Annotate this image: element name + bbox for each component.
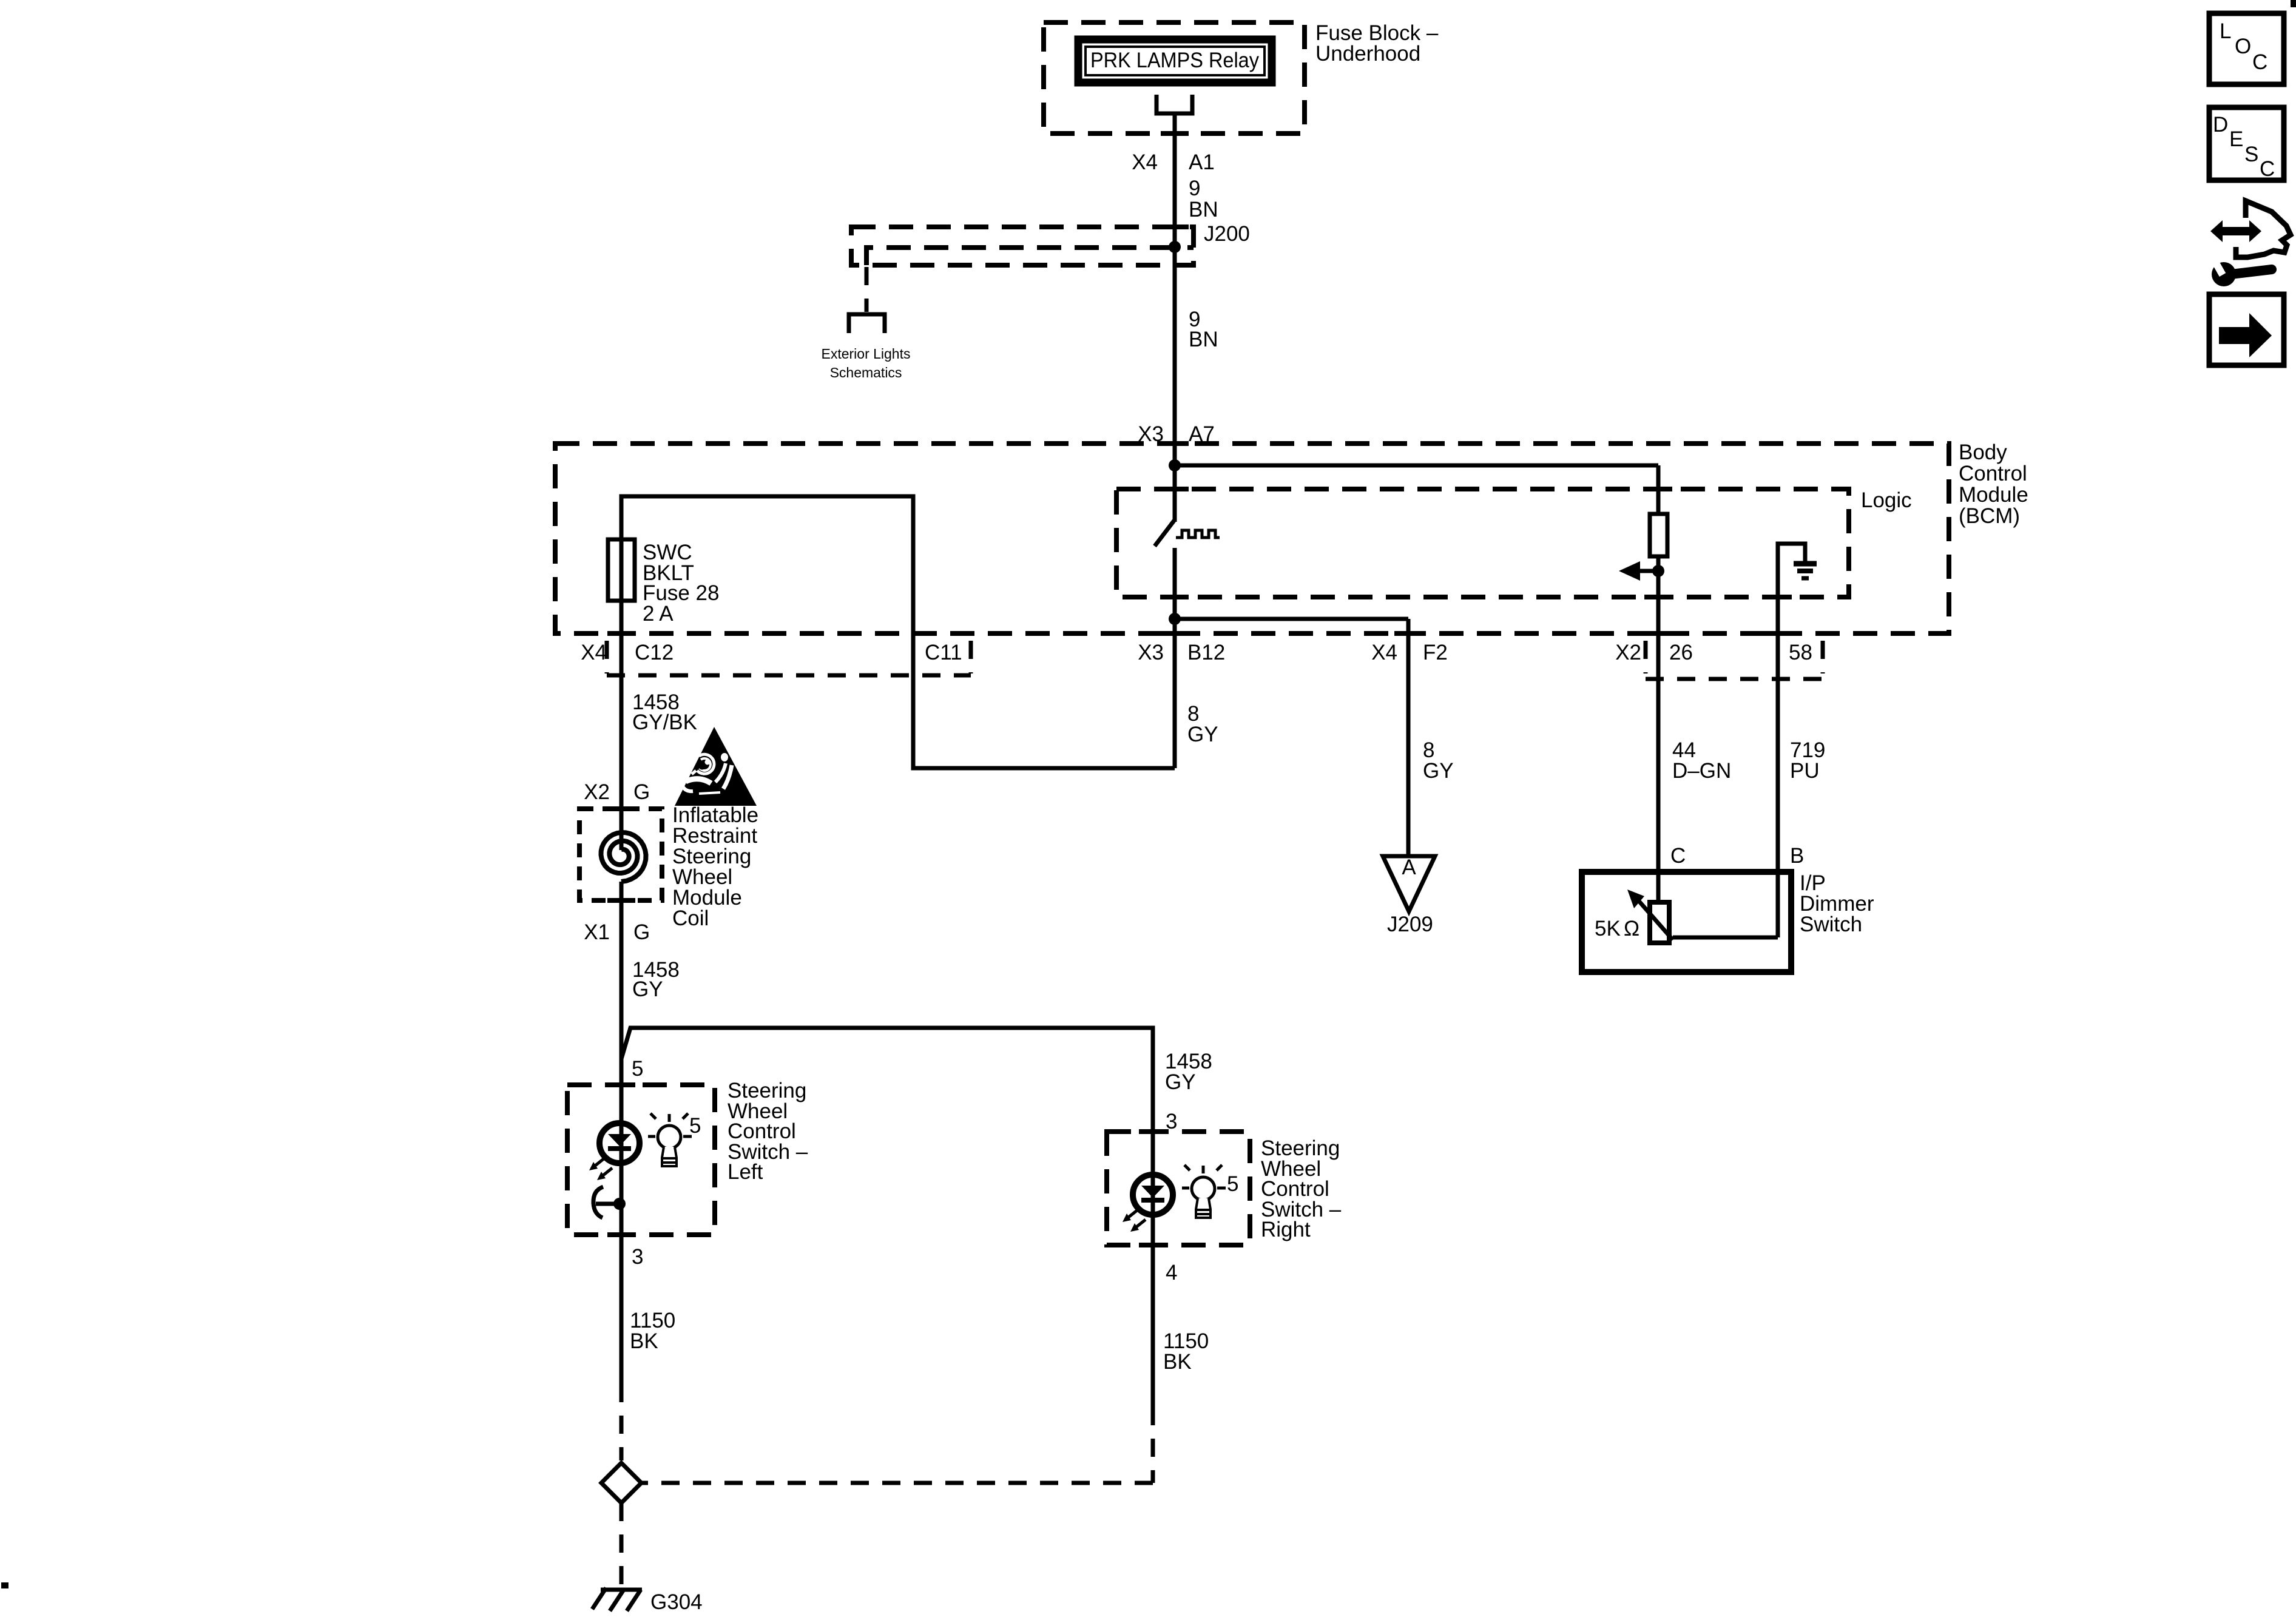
svg-text:E: E bbox=[2229, 127, 2243, 151]
tick crossing J200 box top bbox=[1161, 224, 1189, 229]
svg-text:Control: Control bbox=[1959, 462, 2027, 485]
svg-text:X2: X2 bbox=[584, 780, 610, 804]
tick crossings logic box bbox=[1161, 487, 1189, 491]
wire from coil down bbox=[620, 882, 624, 1384]
pushbutton switch left bbox=[613, 1198, 626, 1210]
svg-text:Body: Body bbox=[1959, 441, 2007, 464]
dashed wire left to diamond bbox=[620, 1384, 624, 1460]
wire horizontal to resistor branch bbox=[1175, 464, 1658, 468]
tick crossings BCM bottom bbox=[607, 631, 635, 636]
svg-text:5: 5 bbox=[632, 1057, 643, 1081]
svg-text:GY: GY bbox=[1423, 759, 1454, 783]
node junction on wire to logic bbox=[1169, 459, 1181, 471]
dashed wire below diamond bbox=[620, 1503, 624, 1587]
connector strip C12/C11 bbox=[605, 641, 609, 673]
svg-text:26: 26 bbox=[1669, 641, 1693, 664]
relay pin bracket bbox=[1156, 95, 1192, 113]
svg-text:B12: B12 bbox=[1187, 641, 1225, 664]
wire below resistor bbox=[1656, 556, 1661, 902]
svg-text:GY/BK: GY/BK bbox=[632, 711, 697, 734]
svg-text:C12: C12 bbox=[635, 641, 674, 664]
fuse F28 SWC BKLT bbox=[608, 539, 635, 601]
splice box J200 inner bbox=[866, 248, 1194, 265]
svg-text:C: C bbox=[2260, 157, 2275, 181]
svg-text:O: O bbox=[2235, 35, 2251, 58]
svg-text:X1: X1 bbox=[584, 920, 610, 944]
branch to right switch bbox=[621, 1028, 1153, 1407]
switch blade in BCM logic bbox=[1155, 521, 1174, 546]
stray mark bottom left bbox=[1, 1582, 8, 1588]
connector triangle A J209 bbox=[1383, 856, 1435, 911]
svg-text:D: D bbox=[2213, 113, 2228, 137]
svg-text:Left: Left bbox=[728, 1160, 763, 1184]
fuse F28 loop wiring bbox=[621, 496, 1175, 850]
splice box J200 outer bbox=[851, 227, 1194, 265]
svg-text:PU: PU bbox=[1790, 759, 1820, 783]
svg-text:GY: GY bbox=[1165, 1070, 1196, 1094]
svg-text:F2: F2 bbox=[1423, 641, 1448, 664]
svg-text:X4: X4 bbox=[1371, 641, 1397, 664]
node J200 bbox=[1169, 241, 1181, 253]
svg-text:Schematics: Schematics bbox=[830, 365, 902, 380]
bulb icon right bbox=[1192, 1177, 1215, 1200]
svg-text:GY: GY bbox=[632, 977, 663, 1001]
node junction to F2 branch bbox=[1169, 613, 1181, 625]
svg-text:GY: GY bbox=[1187, 723, 1218, 746]
svg-text:X4: X4 bbox=[581, 641, 607, 664]
wire inside dimmer from B bbox=[1673, 936, 1778, 940]
connector strip X2 26 58 bbox=[1644, 641, 1648, 673]
svg-text:(BCM): (BCM) bbox=[1959, 504, 2020, 528]
svg-text:BN: BN bbox=[1189, 198, 1218, 221]
svg-text:BN: BN bbox=[1189, 328, 1218, 351]
svg-text:C: C bbox=[2252, 50, 2267, 74]
wire main vertical from relay bbox=[1173, 113, 1177, 522]
left switch dashed box bbox=[567, 1085, 715, 1235]
svg-text:9: 9 bbox=[1189, 177, 1200, 200]
bulb icon left bbox=[658, 1126, 681, 1149]
icon double arrow bbox=[2210, 220, 2261, 242]
svg-text:Switch: Switch bbox=[1800, 913, 1862, 936]
wire dashed to exterior lights bbox=[865, 267, 869, 312]
icon DESC box bbox=[2209, 107, 2284, 180]
I/P dimmer switch box bbox=[1582, 872, 1791, 972]
icon LOC box bbox=[2209, 13, 2284, 84]
svg-text:2 A: 2 A bbox=[643, 602, 674, 626]
tick crossing BCM top bbox=[1161, 441, 1189, 446]
svg-text:Module: Module bbox=[1959, 483, 2028, 507]
svg-text:Coil: Coil bbox=[672, 906, 709, 930]
dashed wire horizontal to diamond bbox=[642, 1481, 1153, 1485]
connector bracket exterior lights bbox=[849, 314, 885, 333]
wire horizontal to F2 bbox=[1175, 617, 1408, 621]
svg-text:Logic: Logic bbox=[1861, 488, 1912, 512]
svg-text:Exterior Lights: Exterior Lights bbox=[821, 346, 910, 362]
node below resistor bbox=[1652, 565, 1664, 577]
right switch dashed box bbox=[1107, 1132, 1250, 1245]
svg-text:B: B bbox=[1790, 844, 1804, 868]
wire 719 from ground down bbox=[1776, 564, 1780, 937]
svg-text:J200: J200 bbox=[1204, 222, 1250, 246]
clockspring coil spiral bbox=[601, 832, 646, 882]
svg-text:S: S bbox=[2244, 143, 2258, 166]
svg-text:C11: C11 bbox=[925, 641, 962, 664]
svg-text:X3: X3 bbox=[1138, 641, 1164, 664]
ground G304 bbox=[601, 1588, 642, 1592]
svg-text:3: 3 bbox=[632, 1245, 643, 1269]
svg-text:G: G bbox=[633, 920, 650, 944]
svg-text:BK: BK bbox=[1163, 1350, 1192, 1374]
svg-text:5K: 5K bbox=[1595, 917, 1621, 940]
icon wrench bbox=[2231, 269, 2272, 274]
svg-text:Right: Right bbox=[1261, 1218, 1311, 1241]
svg-text:PRK LAMPS Relay: PRK LAMPS Relay bbox=[1090, 49, 1259, 72]
svg-text:X4: X4 bbox=[1132, 150, 1158, 174]
potentiometer 5K bbox=[1650, 902, 1669, 943]
airbag warning triangle bbox=[675, 727, 757, 806]
PWM square wave symbol bbox=[1176, 530, 1220, 538]
LED right bbox=[1133, 1175, 1173, 1215]
arrow pointing left from node bbox=[1638, 569, 1658, 573]
resistor in logic box bbox=[1650, 514, 1667, 556]
svg-text:5: 5 bbox=[1227, 1172, 1238, 1196]
svg-text:D–GN: D–GN bbox=[1672, 759, 1731, 783]
svg-text:Underhood: Underhood bbox=[1315, 42, 1420, 66]
fuse block underhood dashed box bbox=[1044, 22, 1305, 133]
svg-text:X2: X2 bbox=[1615, 641, 1641, 664]
LED left bbox=[599, 1123, 640, 1163]
svg-text:A1: A1 bbox=[1189, 150, 1215, 174]
BCM dashed box bbox=[555, 444, 1949, 633]
relay K1 PRK LAMPS Relay box bbox=[1078, 39, 1272, 83]
svg-text:4: 4 bbox=[1166, 1261, 1177, 1284]
svg-text:BK: BK bbox=[630, 1329, 658, 1353]
stray mark top right bbox=[2291, 0, 2296, 7]
svg-text:J209: J209 bbox=[1387, 913, 1433, 936]
svg-text:G304: G304 bbox=[650, 1590, 703, 1614]
svg-text:L: L bbox=[2220, 19, 2231, 43]
icon hand outline bbox=[2236, 201, 2291, 257]
coil dashed box bbox=[579, 809, 662, 900]
dashed wire right down bbox=[1151, 1407, 1155, 1483]
logic dashed box bbox=[1116, 489, 1849, 597]
splice diamond bbox=[601, 1463, 641, 1503]
svg-text:A: A bbox=[1402, 856, 1416, 879]
wire below switch bbox=[1173, 548, 1177, 768]
svg-text:5: 5 bbox=[689, 1114, 701, 1138]
svg-text:G: G bbox=[633, 780, 650, 804]
tick crossing fuse block border bbox=[1161, 131, 1189, 136]
ground symbol in logic box bbox=[1778, 544, 1805, 601]
icon arrow box bbox=[2209, 294, 2284, 365]
svg-text:C: C bbox=[1670, 844, 1686, 868]
svg-text:Ω: Ω bbox=[1624, 917, 1639, 940]
svg-text:58: 58 bbox=[1789, 641, 1812, 664]
